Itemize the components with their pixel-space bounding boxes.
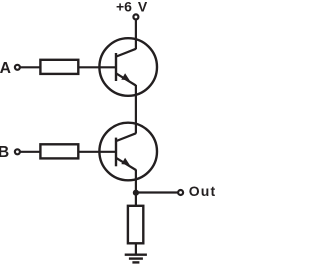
wire junction to Out terminal <box>136 191 178 193</box>
wire R3 to ground <box>135 244 137 255</box>
terminal Out <box>178 190 183 195</box>
resistor RB <box>40 144 78 158</box>
svg-text:A: A <box>0 60 11 77</box>
terminal A <box>15 65 20 70</box>
transistor Q1 <box>99 38 157 96</box>
svg-text:Out: Out <box>189 183 216 199</box>
resistor RA <box>40 60 78 74</box>
wire V+ to Q1 collector <box>135 19 137 49</box>
junction dot <box>133 190 139 196</box>
ground <box>125 255 147 263</box>
wire RB to Q2 base <box>79 151 118 153</box>
wire Q1 emitter to Q2 collector <box>135 85 137 134</box>
resistor R3 <box>128 206 143 244</box>
wire RA to Q1 base <box>79 66 118 68</box>
terminal B <box>15 149 20 154</box>
wire A terminal to resistor <box>20 66 40 68</box>
wire B terminal to resistor <box>20 151 40 153</box>
wire Q2 emitter to resistor R3 <box>135 170 137 206</box>
transistor Q2 <box>99 123 157 181</box>
svg-text:B: B <box>0 144 9 161</box>
svg-text:V: V <box>138 0 148 15</box>
terminal +6V <box>133 14 138 19</box>
svg-text:+6: +6 <box>116 0 132 15</box>
